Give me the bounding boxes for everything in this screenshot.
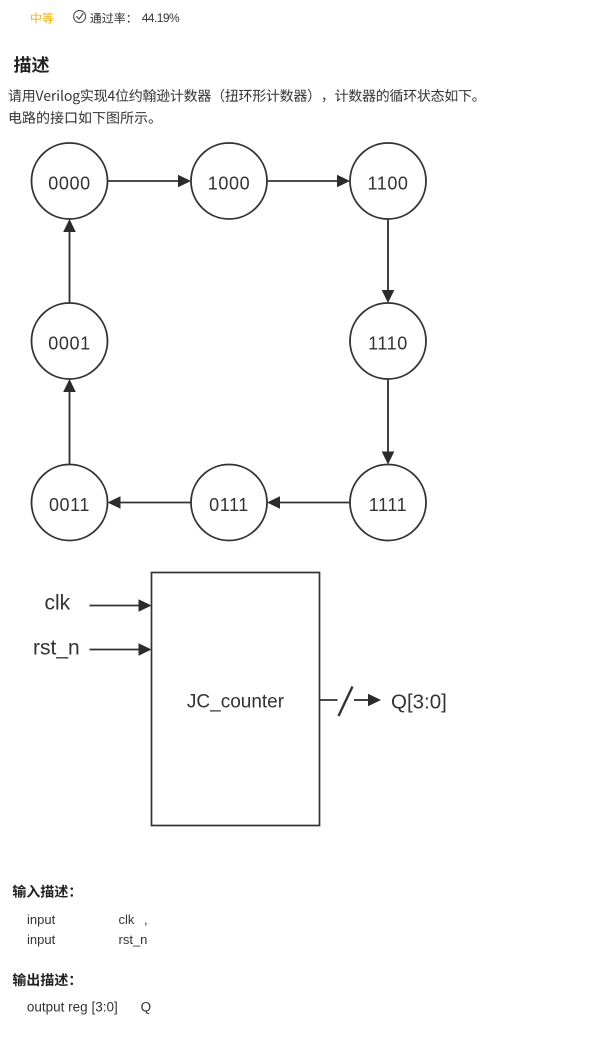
wire 0111 to 0011 — [108, 496, 192, 509]
wire 1100 to 1110 — [382, 219, 395, 303]
pass-rate icon (check circle) — [74, 11, 86, 23]
svg-text:0001: 0001 — [48, 334, 90, 354]
node 0000 — [32, 143, 108, 219]
wire 0011 to 0001 — [63, 379, 76, 465]
svg-text:output reg [3:0]: output reg [3:0] — [27, 999, 118, 1014]
section heading 输入描述： — [13, 885, 73, 898]
svg-text:44.19%: 44.19% — [142, 11, 180, 25]
wire 1110 to 1111 — [382, 379, 395, 465]
svg-text:clk: clk — [119, 912, 135, 927]
svg-text:rst_n: rst_n — [33, 637, 80, 660]
node 0001 — [32, 303, 108, 379]
svg-text:0111: 0111 — [209, 495, 249, 515]
svg-text:JC_counter: JC_counter — [187, 692, 285, 713]
svg-text:0000: 0000 — [48, 174, 90, 194]
wire 0001 to 0000 — [63, 219, 76, 303]
svg-text:1000: 1000 — [208, 174, 250, 194]
wire clk input — [90, 599, 152, 612]
wire Q output from block — [320, 699, 338, 701]
node 1000 — [191, 143, 267, 219]
section heading 输出描述： — [13, 973, 73, 986]
pass-rate text 通过率：44.19% — [90, 12, 129, 23]
svg-text:Q: Q — [141, 999, 152, 1014]
block JC_counter module body — [152, 573, 320, 826]
wire Q output arrow — [354, 694, 381, 707]
node 1100 — [350, 143, 426, 219]
node 1111 — [350, 465, 426, 541]
svg-text:rst_n: rst_n — [119, 932, 148, 947]
paragraph line 2 — [10, 111, 153, 124]
difficulty label 中等 — [31, 13, 53, 24]
node 0111 — [191, 465, 267, 541]
svg-text:clk: clk — [45, 592, 71, 615]
svg-text:,: , — [144, 912, 148, 927]
svg-text:1111: 1111 — [369, 495, 407, 515]
svg-text:1100: 1100 — [367, 174, 408, 194]
node 1110 — [350, 303, 426, 379]
paragraph line 1 — [9, 89, 477, 105]
wire 1111 to 0111 — [267, 496, 350, 509]
node 0011 — [32, 465, 108, 541]
wire 0000 to 1000 — [108, 175, 192, 188]
svg-text:input: input — [27, 932, 56, 947]
svg-text:0011: 0011 — [49, 495, 90, 515]
svg-text:input: input — [27, 912, 56, 927]
wire 1000 to 1100 — [267, 175, 350, 188]
svg-text:1110: 1110 — [368, 334, 408, 354]
heading 描述 — [14, 56, 49, 73]
svg-text:Q[3:0]: Q[3:0] — [391, 691, 447, 714]
wire rst_n input — [90, 643, 152, 656]
bus width slash — [339, 687, 353, 717]
